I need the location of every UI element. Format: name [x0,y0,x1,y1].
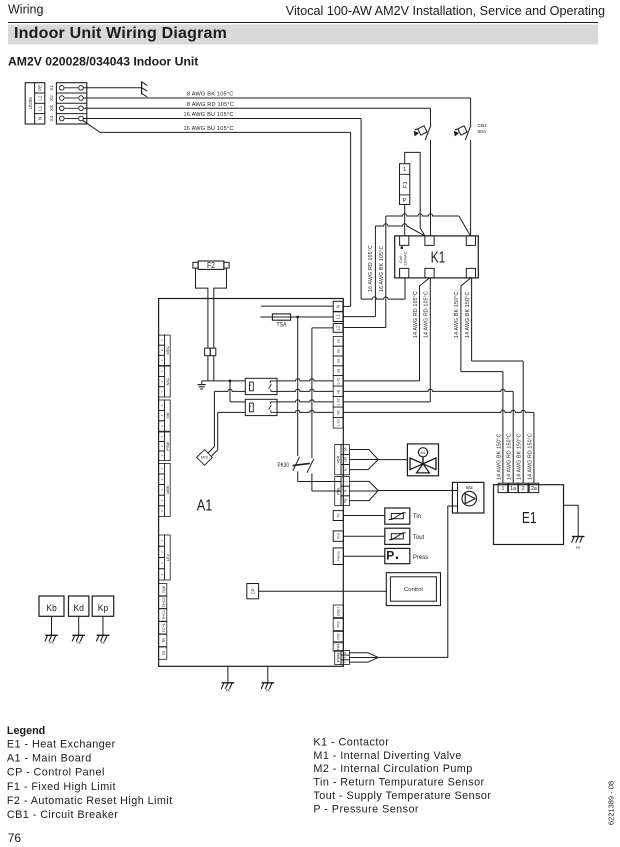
svg-text:16 AWG BU 105°C: 16 AWG BU 105°C [184,112,234,118]
svg-text:L10: L10 [343,457,347,463]
svg-text:14 AWG BK 150°C: 14 AWG BK 150°C [454,292,460,338]
switch PK30 [297,317,299,456]
svg-text:PE: PE [226,689,231,693]
svg-text:X4: X4 [49,115,54,121]
svg-text:K1: K1 [431,250,446,267]
svg-text:THC2: THC2 [162,597,166,607]
svg-text:14 AWG RD 105°C: 14 AWG RD 105°C [424,291,430,338]
svg-text:X1: X1 [49,85,54,91]
svg-text:Vitocal 100-AW AM2V Installati: Vitocal 100-AW AM2V Installation, Servic… [286,4,605,18]
chassis ground (sideways) [141,81,143,94]
svg-text:TD: TD [162,650,166,655]
svg-text:M1 - Internal Diverting Valve: M1 - Internal Diverting Valve [313,750,461,762]
A1 right terminals DOUT FN [333,605,343,617]
terminal group PM1 [335,477,341,506]
terminal group PWM [335,650,341,664]
ground Kb PE [45,634,58,636]
svg-text:PSW: PSW [166,442,170,451]
fuse F2 automatic reset high limit [198,261,224,269]
wire E1 PE [564,505,579,536]
svg-text:S6: S6 [343,447,347,451]
svg-text:76: 76 [8,831,22,845]
svg-text:PE: PE [266,689,271,693]
svg-text:6221389 - 08: 6221389 - 08 [606,781,615,825]
wire 16 AWG RD bus from L1 [374,226,376,317]
pennant to M2 PWM [350,653,379,658]
connector pair [205,348,211,356]
svg-text:Tout - Supply Temperature Sens: Tout - Supply Temperature Sensor [313,790,491,802]
svg-text:1: 1 [403,167,406,173]
control panel [386,573,440,606]
svg-text:N3C: N3C [166,378,170,386]
chassis ground E1 PE [572,536,585,538]
svg-text:U/206: U/206 [28,97,33,110]
svg-text:VDR: VDR [336,455,340,463]
A1 right terminals N L1 L2 [333,301,343,311]
junction [229,380,232,383]
svg-text:PE: PE [576,546,581,550]
svg-text:P: P [386,549,394,563]
svg-text:14 AWG BK 150°C: 14 AWG BK 150°C [496,434,502,480]
svg-text:2a: 2a [337,349,341,353]
svg-text:L-X3: L-X3 [337,419,341,426]
svg-text:H2: H2 [337,410,341,414]
svg-text:P: P [403,198,407,204]
svg-text:Tin - Return Tempurature Senso: Tin - Return Tempurature Sensor [313,777,484,789]
svg-text:2: 2 [522,486,525,492]
svg-text:P: P [343,652,347,654]
svg-text:PE: PE [77,641,82,645]
svg-text:PM1: PM1 [336,487,340,495]
svg-text:Tin: Tin [337,513,341,518]
svg-text:120VAC: 120VAC [402,251,407,266]
wire A1 to E1 2a [343,410,534,412]
terminal Tout [333,531,343,541]
svg-text:Tout: Tout [413,535,425,541]
svg-text:1a: 1a [510,486,516,492]
wire 14 AWG RD a [420,278,430,381]
wire PWM to M2 [378,506,457,657]
wire 8 AWG RD [83,107,430,109]
svg-text:TR: TR [162,638,166,643]
svg-text:Wiring: Wiring [8,3,43,17]
svg-text:TSA: TSA [277,321,287,328]
svg-text:X2: X2 [49,95,54,101]
svg-text:CB1 - Circuit Breaker: CB1 - Circuit Breaker [7,809,118,821]
contactor K1 [395,236,479,278]
svg-text:FN4: FN4 [337,644,341,650]
svg-text:LEV: LEV [166,553,170,561]
svg-text:M2 - Internal Circulation Pump: M2 - Internal Circulation Pump [313,763,472,775]
svg-text:AM2V 020028/034043 Indoor Unit: AM2V 020028/034043 Indoor Unit [8,55,198,69]
svg-text:SW: SW [166,412,170,419]
svg-text:2a: 2a [337,359,341,363]
wire 14 AWG RD b [429,278,431,402]
svg-text:F1 - Fixed High Limit: F1 - Fixed High Limit [7,781,116,793]
terminal Press [333,548,343,565]
svg-text:L: L [343,480,347,482]
wire L2 [312,327,333,329]
svg-text:F: F [343,656,347,658]
svg-text:MCU: MCU [201,456,209,460]
connector CP [247,584,259,599]
svg-text:PWM: PWM [336,653,340,662]
ground A1 PE 2 [267,666,269,683]
svg-text:PK30: PK30 [278,462,290,469]
svg-text:14 AWG BK 150°C: 14 AWG BK 150°C [517,434,523,480]
A1 right terminal group X/H [333,336,343,346]
svg-text:Kb: Kb [46,603,57,614]
pennant to M2 [350,481,379,490]
svg-text:F1: F1 [403,181,409,188]
svg-text:Kd: Kd [73,603,84,614]
svg-text:X3: X3 [49,105,54,111]
svg-text:Tin: Tin [413,514,421,520]
svg-text:FN3: FN3 [337,621,341,627]
svg-text:Press: Press [413,555,428,561]
svg-text:PE: PE [101,641,106,645]
svg-text:L1: L1 [38,105,43,111]
svg-text:Legend: Legend [7,725,45,737]
svg-text:16 AWG BK 105°C: 16 AWG BK 105°C [379,246,385,292]
svg-text:1: 1 [501,486,504,492]
svg-text:THC1: THC1 [162,610,166,620]
terminal block U/206 [25,83,45,124]
svg-text:8 AWG RD 105°C: 8 AWG RD 105°C [187,102,234,108]
svg-text:Kp: Kp [98,603,109,614]
wire 16 AWG BU 2 [83,120,100,132]
svg-text:8 AWG BK 105°C: 8 AWG BK 105°C [187,92,234,98]
svg-text:M2: M2 [466,485,473,491]
ground Kp PE [97,634,110,636]
earth ground [202,380,246,382]
svg-text:CB1: CB1 [478,123,488,129]
svg-text:E1: E1 [522,510,537,527]
svg-text:PE: PE [343,498,347,502]
svg-text:L2: L2 [38,95,43,101]
svg-text:Indoor Unit Wiring Diagram: Indoor Unit Wiring Diagram [14,25,227,42]
svg-text:A1: A1 [197,497,213,514]
svg-text:CP: CP [250,588,255,594]
heat exchanger E1 [494,485,564,545]
svg-text:Tout: Tout [337,533,341,539]
svg-text:2a: 2a [337,339,341,343]
svg-text:14 AWG RD 105°C: 14 AWG RD 105°C [413,291,419,338]
relay 2 [245,399,277,415]
svg-text:PRESS: PRESS [337,551,341,561]
svg-text:TCYL: TCYL [162,623,166,633]
relay box Kp [92,596,114,616]
fuse F1 fixed high limit [400,164,410,205]
svg-text:DOUT: DOUT [337,607,341,616]
wire N [261,305,333,307]
wire A1 to E1 1a [343,389,513,391]
svg-text:PE: PE [49,641,54,645]
svg-text:A1 - Main Board: A1 - Main Board [7,753,92,765]
svg-text:M1: M1 [421,451,426,455]
A1 left terminals [164,335,170,365]
pennant to M1 [350,450,379,460]
sensor Tout [385,528,410,544]
ground A1 PE 1 [227,666,229,683]
svg-text:14 AWG RD 150°C: 14 AWG RD 150°C [527,433,533,480]
wire 8 AWG BK [83,97,470,99]
MCU [197,450,213,466]
svg-text:PE: PE [38,85,43,91]
relay box Kb [39,596,64,616]
svg-text:485C: 485C [166,345,170,354]
svg-text:FN2: FN2 [337,633,341,639]
wire K1 coil from BU [404,278,406,299]
svg-text:16 AWG BU 105°C: 16 AWG BU 105°C [184,126,234,132]
svg-text:L2: L2 [336,325,341,330]
fuse TSA [260,316,333,318]
svg-text:L1: L1 [336,314,341,319]
wire 14 AWG BK b [471,278,473,361]
svg-text:F2: F2 [207,261,215,270]
wire 16 AWG BU 1 [83,118,361,120]
svg-text:H1: H1 [337,389,341,393]
ground Kd PE [72,634,85,636]
wires F2 to board [196,268,208,348]
svg-text:Control: Control [404,587,423,593]
svg-text:14 AWG BK 150°C: 14 AWG BK 150°C [465,292,471,338]
svg-text:L-X1: L-X1 [337,377,341,384]
svg-text:485B: 485B [166,485,170,494]
diverting valve M1 [407,444,438,476]
svg-text:CP - Control Panel: CP - Control Panel [7,767,105,779]
svg-text:N: N [38,117,43,120]
terminal Tin [333,511,343,521]
svg-text:2a: 2a [531,486,537,492]
wire F1 top bypass [405,152,425,236]
svg-text:2a: 2a [337,369,341,373]
relay 1 [245,378,277,394]
svg-text:16 AWG RD 105°C: 16 AWG RD 105°C [368,245,374,292]
svg-text:T: T [343,661,347,663]
svg-text:50A: 50A [478,129,487,135]
wire 14 AWG BK a [461,278,471,372]
terminal group VDR [335,445,341,475]
wire 16 AWG BK bus from L2 [343,327,386,329]
svg-text:K1 - Contactor: K1 - Contactor [313,736,389,748]
relay box Kd [69,596,89,616]
sensor P pressure [385,548,410,563]
svg-text:L-X2: L-X2 [337,398,341,405]
relay input wires [214,389,245,391]
svg-text:N: N [336,305,341,308]
wire F1 bottom [404,205,406,236]
svg-text:P - Pressure Sensor: P - Pressure Sensor [313,803,419,815]
circuit breaker CB1 pole 1 [425,125,431,140]
relay output wires [277,379,333,381]
sensor Tin [385,508,410,524]
circuit breaker CB1 pole 2 [465,125,471,140]
svg-text:14 AWG RD 150°C: 14 AWG RD 150°C [507,433,513,480]
svg-text:F2 - Automatic Reset High Limi: F2 - Automatic Reset High Limit [7,795,173,807]
wire X1 to ground [83,87,141,89]
main board A1 [159,299,344,667]
circulation pump M2 [452,482,484,513]
svg-text:E1 - Heat Exchanger: E1 - Heat Exchanger [7,738,116,750]
svg-text:TQ8: TQ8 [162,586,166,593]
